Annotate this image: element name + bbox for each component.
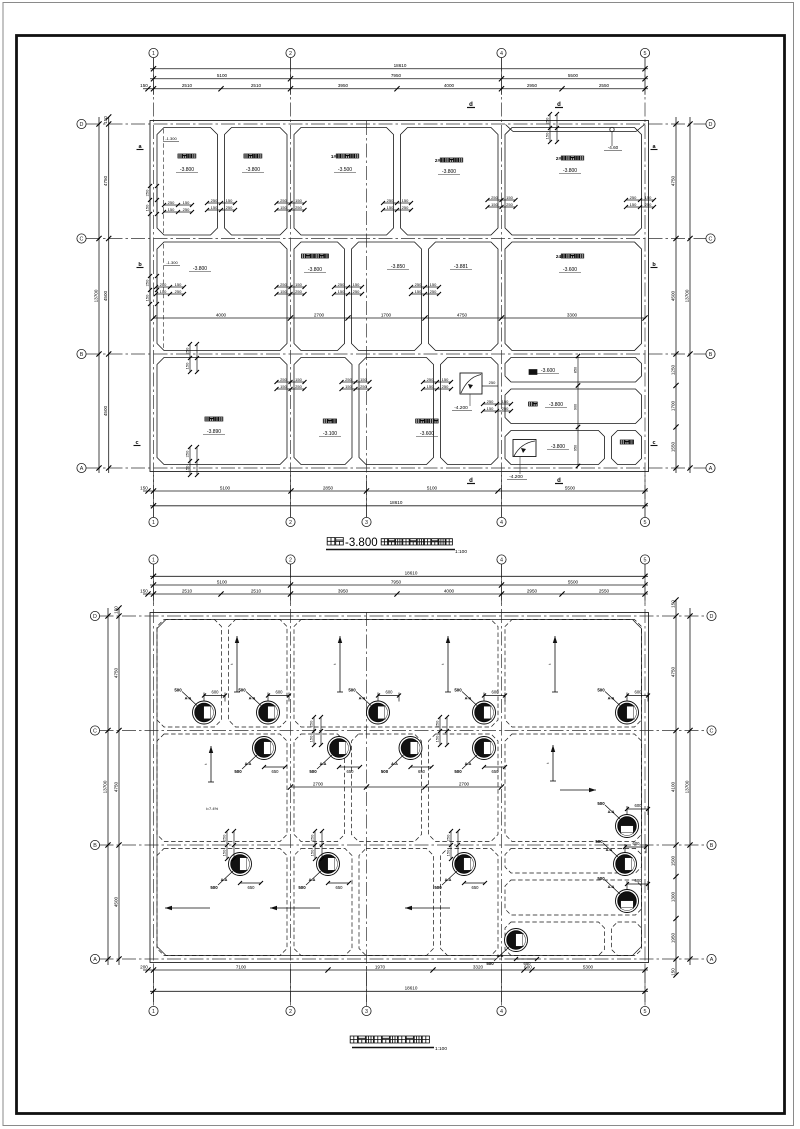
svg-text:250: 250: [185, 347, 190, 354]
svg-text:1970: 1970: [375, 964, 386, 969]
wall thickness dims: [481, 399, 513, 413]
manhole/decanter symbol: [453, 853, 476, 876]
svg-text:250: 250: [645, 202, 652, 207]
svg-text:4750: 4750: [670, 666, 675, 677]
svg-text:150: 150: [295, 377, 302, 382]
tank chamber inner wall face: [612, 431, 642, 465]
svg-text:150: 150: [353, 282, 360, 287]
wall thickness dims: [446, 829, 460, 861]
axis bubble 5: [640, 517, 649, 526]
wall thickness dims: [162, 200, 194, 214]
axis bubble 4: [497, 48, 506, 57]
wall thickness dims: [309, 715, 323, 747]
svg-text:-4.200: -4.200: [509, 474, 523, 480]
axis bubble B: [707, 840, 716, 849]
svg-text:1250: 1250: [670, 364, 675, 375]
axis bubble B: [90, 840, 99, 849]
svg-text:4500: 4500: [103, 405, 108, 416]
svg-text:2#: 2#: [435, 158, 441, 163]
svg-text:A-A: A-A: [497, 954, 504, 958]
svg-text:150: 150: [345, 384, 352, 389]
svg-text:500: 500: [434, 885, 442, 890]
svg-text:250: 250: [353, 289, 360, 294]
svg-text:150: 150: [491, 202, 498, 207]
svg-text:150: 150: [670, 968, 675, 976]
top dimension block of upper plan: [153, 58, 155, 96]
svg-text:900: 900: [574, 404, 578, 410]
svg-text:250: 250: [545, 117, 550, 124]
svg-text:A-A: A-A: [221, 878, 228, 882]
svg-text:5: 5: [644, 557, 647, 563]
svg-text:500: 500: [381, 769, 389, 774]
manhole leader + labels: [454, 688, 507, 706]
svg-text:5500: 5500: [568, 73, 579, 78]
svg-text:150: 150: [185, 465, 190, 472]
wall thickness dims: [340, 377, 372, 391]
interior dimension row upper plan: [151, 312, 648, 320]
svg-text:250: 250: [442, 384, 449, 389]
svg-text:250: 250: [345, 377, 352, 382]
svg-text:4: 4: [500, 557, 503, 563]
svg-text:D: D: [710, 614, 714, 620]
svg-text:-3.850: -3.850: [391, 264, 405, 270]
svg-text:250: 250: [280, 282, 287, 287]
tank chamber inner wall face: [505, 389, 642, 424]
manhole leader + labels: [597, 688, 650, 706]
equipment black block: [529, 370, 537, 375]
axis line 3 (vertical, upper plan): [366, 121, 368, 518]
axis bubble 5: [640, 48, 649, 57]
svg-text:4750: 4750: [457, 312, 468, 317]
svg-text:5500: 5500: [568, 579, 579, 584]
svg-text:250: 250: [295, 205, 302, 210]
svg-text:-1.300: -1.300: [166, 260, 178, 265]
manhole/decanter symbol: [505, 929, 528, 952]
svg-text:250: 250: [502, 406, 509, 411]
svg-text:5100: 5100: [427, 485, 438, 490]
svg-text:-3.800: -3.800: [193, 266, 207, 272]
svg-text:150: 150: [309, 735, 314, 742]
axis bubble 2: [286, 517, 295, 526]
tank chamber inner wall face: [359, 358, 434, 465]
svg-text:1:100: 1:100: [435, 1046, 447, 1052]
svg-text:250: 250: [295, 384, 302, 389]
svg-text:5300: 5300: [583, 964, 594, 969]
sluice inset box 2: [513, 440, 536, 457]
dimension line: [113, 605, 121, 965]
axis bubble 2: [286, 555, 295, 564]
svg-text:200: 200: [140, 964, 148, 969]
axis bubble 4: [497, 1006, 506, 1015]
svg-text:4750: 4750: [670, 175, 675, 186]
svg-text:1950: 1950: [670, 932, 675, 943]
tank chamber inner wall face: [157, 242, 287, 351]
top dimension block of lower plan: [153, 564, 155, 604]
svg-text:150: 150: [502, 399, 509, 404]
flow arrow: [165, 906, 210, 910]
wall thickness dims: [421, 377, 453, 391]
svg-text:250: 250: [491, 195, 498, 200]
svg-text:4750: 4750: [113, 667, 118, 678]
svg-text:-4.60: -4.60: [608, 145, 619, 150]
svg-text:150: 150: [338, 289, 345, 294]
svg-text:-3.600: -3.600: [541, 368, 555, 374]
manhole/decanter symbol: [317, 853, 340, 876]
svg-text:150: 150: [415, 289, 422, 294]
svg-text:2950: 2950: [527, 83, 538, 88]
hidden strip wall: [505, 880, 642, 915]
svg-text:A: A: [709, 466, 713, 472]
svg-text:-3.800: -3.800: [563, 168, 577, 174]
svg-text:2700: 2700: [313, 781, 324, 786]
svg-text:150: 150: [670, 600, 675, 608]
svg-text:150: 150: [113, 606, 118, 614]
svg-text:-1.300: -1.300: [165, 136, 177, 141]
svg-text:500: 500: [597, 688, 605, 693]
svg-text:B: B: [709, 352, 713, 358]
svg-text:4000: 4000: [444, 588, 455, 593]
svg-text:150: 150: [103, 116, 108, 124]
wall thickness dims: [435, 715, 449, 747]
svg-text:1300: 1300: [670, 891, 675, 902]
dimension line: [150, 986, 648, 994]
svg-text:-3.600: -3.600: [563, 267, 577, 273]
dimension line: [140, 83, 648, 91]
svg-text:A-A: A-A: [465, 762, 472, 766]
dimension line: [150, 73, 648, 81]
manhole/decanter symbol: [614, 853, 637, 876]
lower plan slab inner edge: [157, 620, 642, 956]
svg-text:2550: 2550: [599, 588, 610, 593]
svg-text:2550: 2550: [599, 83, 610, 88]
hidden tank wall (dashed): [429, 734, 499, 842]
svg-text:A-A: A-A: [359, 697, 366, 701]
tank chamber inner wall face: [401, 128, 499, 236]
lower plan title: [350, 1036, 429, 1043]
svg-text:150: 150: [310, 849, 315, 856]
tank chamber inner wall face: [441, 358, 499, 465]
dimension line: [684, 608, 692, 965]
axis bubble B: [706, 349, 715, 358]
manhole leader + labels: [174, 688, 227, 706]
svg-text:150: 150: [295, 198, 302, 203]
svg-text:250: 250: [435, 720, 440, 727]
hidden tank wall (dashed): [157, 849, 287, 956]
svg-text:1700: 1700: [381, 312, 392, 317]
axis bubble 4: [497, 555, 506, 564]
svg-text:3320: 3320: [473, 964, 484, 969]
flow arrow: [545, 745, 556, 781]
svg-text:-3.800: -3.800: [442, 169, 456, 175]
svg-text:2#: 2#: [556, 156, 562, 161]
svg-text:A-A: A-A: [606, 848, 613, 852]
svg-text:B: B: [80, 352, 84, 358]
manhole/decanter symbol: [328, 737, 351, 760]
svg-text:13700: 13700: [684, 289, 689, 302]
svg-text:5500: 5500: [565, 485, 576, 490]
svg-text:C: C: [80, 236, 84, 242]
wall thickness dims: [310, 829, 324, 861]
axis bubble 4: [497, 517, 506, 526]
svg-text:A: A: [80, 466, 84, 472]
svg-text:-3.890: -3.890: [207, 429, 221, 435]
svg-text:150: 150: [145, 204, 150, 211]
svg-text:C: C: [709, 236, 713, 242]
svg-text:250: 250: [446, 834, 451, 841]
svg-text:A-A: A-A: [445, 878, 452, 882]
svg-text:D: D: [709, 122, 713, 128]
svg-text:150: 150: [442, 377, 449, 382]
svg-text:-3.800: -3.800: [549, 402, 563, 408]
svg-text:250: 250: [211, 198, 218, 203]
svg-text:2950: 2950: [527, 588, 538, 593]
hidden strip wall: [612, 922, 642, 956]
hidden tank wall (dashed): [441, 849, 499, 956]
svg-text:A: A: [93, 957, 97, 963]
axis bubble 2: [286, 1006, 295, 1015]
axis line 5 (vertical, lower plan): [644, 564, 646, 1007]
manhole leader + labels: [486, 947, 539, 966]
svg-text:B: B: [93, 843, 97, 849]
axis bubble A: [706, 463, 715, 472]
svg-text:650: 650: [272, 769, 280, 774]
svg-text:250: 250: [280, 377, 287, 382]
tank chamber inner wall face: [505, 431, 605, 465]
svg-text:250: 250: [506, 202, 513, 207]
manhole leader + labels: [597, 876, 650, 894]
hidden channel line: [163, 129, 165, 233]
svg-text:250: 250: [489, 380, 496, 385]
svg-text:D: D: [80, 122, 84, 128]
svg-text:5: 5: [644, 520, 647, 526]
svg-text:150: 150: [545, 132, 550, 139]
tank chamber inner wall face: [294, 128, 394, 236]
internal vertical dim right strips: [577, 356, 579, 466]
svg-text:2: 2: [289, 520, 292, 526]
axis bubble 1: [149, 517, 158, 526]
svg-text:150: 150: [506, 195, 513, 200]
wall thickness dims: [409, 282, 441, 296]
svg-text:4: 4: [500, 1009, 503, 1015]
svg-text:i=7.4%: i=7.4%: [206, 806, 219, 811]
svg-text:150: 150: [360, 377, 367, 382]
sluice inset box 1: [460, 373, 482, 394]
svg-text:250: 250: [145, 189, 150, 196]
bottom dimension block of upper plan: [153, 475, 155, 518]
hidden tank wall (dashed): [157, 620, 222, 728]
manhole leader + labels: [348, 688, 401, 706]
dimension line: [140, 485, 648, 493]
svg-text:250: 250: [168, 200, 175, 205]
svg-text:C: C: [93, 728, 97, 734]
svg-text:950: 950: [574, 445, 578, 451]
svg-text:250: 250: [427, 377, 434, 382]
svg-text:150: 150: [140, 83, 148, 88]
svg-text:600: 600: [276, 690, 284, 695]
hidden tank wall (dashed): [505, 734, 642, 842]
svg-text:250: 250: [430, 289, 437, 294]
axis line D (horizontal, lower plan): [100, 615, 708, 617]
axis line 2 (vertical, lower plan): [290, 564, 292, 1007]
svg-text:500: 500: [597, 801, 605, 806]
axis line B (horizontal, upper plan): [86, 353, 706, 355]
svg-text:1: 1: [152, 1009, 155, 1015]
hidden tank wall (dashed): [352, 734, 422, 842]
svg-text:600: 600: [635, 878, 643, 883]
svg-text:1500: 1500: [670, 855, 675, 866]
svg-text:4500: 4500: [670, 290, 675, 301]
hidden tank wall (dashed): [157, 734, 287, 842]
svg-text:250: 250: [185, 450, 190, 457]
tank chamber inner wall face: [294, 242, 345, 351]
svg-text:-3.800: -3.800: [246, 167, 260, 173]
wall thickness dims: [332, 282, 364, 296]
axis bubble D: [77, 119, 86, 128]
svg-text:1: 1: [152, 51, 155, 57]
svg-text:650: 650: [347, 769, 355, 774]
axis line 1 (vertical, lower plan): [153, 564, 155, 1007]
svg-text:250: 250: [309, 720, 314, 727]
axis line 4 (vertical, lower plan): [501, 564, 503, 1007]
manhole leader + labels: [210, 871, 263, 890]
svg-text:-4.200: -4.200: [454, 405, 468, 411]
svg-text:A-A: A-A: [185, 697, 192, 701]
flow arrow lower plan: [560, 788, 596, 792]
wall thickness dims: [381, 198, 413, 212]
svg-text:150: 150: [226, 198, 233, 203]
svg-text:600: 600: [635, 803, 643, 808]
svg-text:3: 3: [365, 1009, 368, 1015]
svg-text:24: 24: [556, 254, 562, 259]
svg-text:-3.100: -3.100: [323, 431, 337, 437]
tank chamber inner wall face: [505, 358, 642, 383]
flow arrow: [547, 636, 558, 692]
wall thickness dims: [624, 195, 656, 209]
svg-text:-3.800: -3.800: [180, 167, 194, 173]
wall thickness dims: [275, 282, 307, 296]
wall thickness dims: [222, 829, 236, 861]
tank chamber inner wall face: [294, 358, 352, 465]
svg-text:13700: 13700: [684, 780, 689, 793]
svg-text:500: 500: [595, 839, 603, 844]
svg-text:650: 650: [336, 885, 344, 890]
flow arrow: [440, 636, 451, 692]
manhole/decanter symbol: [253, 737, 276, 760]
svg-text:600: 600: [386, 690, 394, 695]
dimension line: [670, 597, 678, 977]
axis line 3 (vertical, lower plan): [366, 612, 368, 1007]
dimension line: [150, 500, 648, 508]
svg-text:A-A: A-A: [608, 810, 615, 814]
manhole/decanter symbol: [229, 853, 252, 876]
tank chamber inner wall face: [505, 128, 642, 236]
svg-text:150: 150: [280, 205, 287, 210]
svg-text:600: 600: [635, 690, 643, 695]
manhole/decanter symbol: [399, 737, 422, 760]
axis bubble A: [707, 954, 716, 963]
svg-text:2510: 2510: [182, 83, 193, 88]
svg-text:4750: 4750: [103, 175, 108, 186]
tank chamber inner wall face: [157, 128, 218, 236]
axis bubble 1: [149, 48, 158, 57]
svg-text:2: 2: [289, 557, 292, 563]
svg-text:A-A: A-A: [309, 878, 316, 882]
svg-text:150: 150: [168, 207, 175, 212]
dimension line: [103, 114, 111, 473]
svg-text:150: 150: [145, 294, 150, 301]
svg-text:18610: 18610: [390, 500, 403, 505]
svg-text:A: A: [710, 957, 714, 963]
svg-text:2510: 2510: [182, 588, 193, 593]
svg-text:A-A: A-A: [391, 762, 398, 766]
axis bubble C: [707, 726, 716, 735]
flow arrow: [203, 746, 214, 782]
dimension line: [93, 117, 101, 473]
dimension line: [102, 608, 110, 965]
dimension line: [140, 964, 648, 972]
svg-text:250: 250: [145, 279, 150, 286]
svg-text:5100: 5100: [220, 485, 231, 490]
wall thickness dims: [545, 112, 559, 144]
hidden tank wall (dashed): [294, 734, 345, 842]
svg-text:1700: 1700: [670, 400, 675, 411]
hidden tank wall (dashed): [229, 620, 288, 728]
svg-text:18610: 18610: [394, 63, 407, 68]
manhole leader + labels: [595, 839, 648, 857]
svg-text:4000: 4000: [216, 312, 227, 317]
svg-text:150: 150: [140, 588, 148, 593]
svg-text:500: 500: [309, 769, 317, 774]
svg-text:4500: 4500: [103, 290, 108, 301]
svg-text:7100: 7100: [236, 964, 247, 969]
hidden strip wall: [505, 922, 605, 956]
svg-text:500: 500: [597, 876, 605, 881]
svg-text:-3.800: -3.800: [345, 537, 378, 549]
svg-text:500: 500: [174, 688, 182, 693]
svg-text:150: 150: [402, 198, 409, 203]
svg-text:18610: 18610: [405, 986, 418, 991]
svg-text:4100: 4100: [670, 781, 675, 792]
hidden tank wall (dashed): [294, 620, 498, 728]
axis line 4 (vertical, upper plan): [501, 58, 503, 518]
svg-text:5: 5: [644, 1009, 647, 1015]
drain funnel symbol: [610, 127, 614, 131]
hidden channel line: [163, 244, 165, 349]
axis bubble B: [77, 349, 86, 358]
svg-text:2510: 2510: [251, 83, 262, 88]
svg-text:3950: 3950: [338, 588, 349, 593]
axis bubble D: [706, 119, 715, 128]
svg-text:250: 250: [630, 195, 637, 200]
chamber name labels upper plan: [178, 154, 196, 158]
bottom dimension block of lower plan: [153, 966, 155, 1002]
manhole leader + labels: [234, 755, 287, 774]
svg-text:250: 250: [310, 834, 315, 841]
axis line D (horizontal, upper plan): [86, 123, 706, 125]
axis bubble A: [77, 463, 86, 472]
svg-text:150: 150: [430, 282, 437, 287]
svg-text:-3.800: -3.800: [308, 267, 322, 273]
svg-text:13700: 13700: [93, 289, 98, 302]
flow arrow: [229, 636, 240, 692]
axis bubble A: [90, 954, 99, 963]
svg-text:-3.881: -3.881: [454, 264, 468, 270]
svg-text:13700: 13700: [102, 780, 107, 793]
svg-text:4: 4: [500, 520, 503, 526]
axis bubble D: [707, 611, 716, 620]
manhole leader + labels: [597, 801, 650, 819]
svg-text:650: 650: [248, 885, 256, 890]
